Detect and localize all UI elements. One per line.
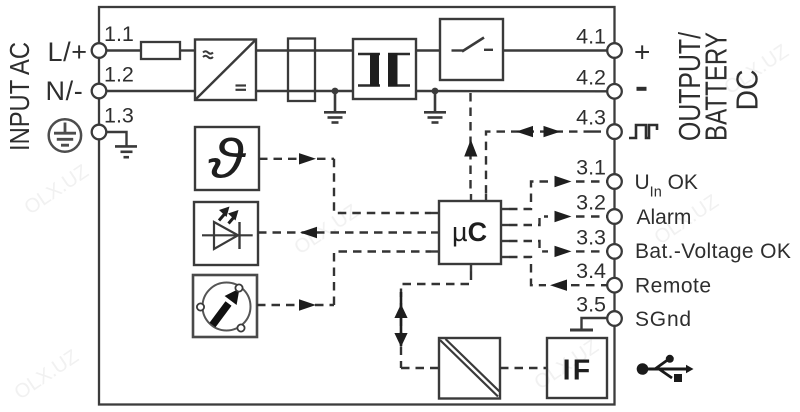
svg-text:+: + [634,37,650,68]
arrow up on comm link [394,292,407,346]
ground (terminal 1.3) [115,146,137,157]
USB connector icon [637,355,694,382]
dashed line uC to terminal 3.1 [509,182,548,210]
AC/DC converter U1 [195,40,256,101]
label L/+ [48,37,88,67]
svg-text:3.1: 3.1 [576,156,606,180]
svg-text:1.2: 1.2 [104,63,134,87]
label SGnd [635,308,692,331]
label - (output minus) [637,87,647,91]
svg-text:OLX.UZ: OLX.UZ [10,346,82,405]
label UIn OK [635,171,698,201]
pin label 1.1 [104,22,134,46]
pin label 3.4 [576,259,606,283]
wire AC/DC to transformer (upper, through filter) [256,49,353,51]
svg-text:UIn OK: UIn OK [635,171,698,201]
wire transformer to relay [416,49,440,51]
arrow right on 4.3 line [544,126,561,137]
svg-text:ϑ: ϑ [208,127,247,189]
label N/- [46,76,84,106]
svg-text:3.5: 3.5 [576,293,606,317]
arrow left on 4.3 line [516,126,533,137]
label + (output plus) [634,37,650,68]
pin label 1.3 [104,104,134,128]
terminal 3.4 [607,278,622,293]
svg-text:3.2: 3.2 [576,191,606,215]
svg-text:4.2: 4.2 [576,65,606,89]
wire AC/DC to transformer (lower, through filter) [256,90,353,92]
terminal 4.1 [607,43,622,58]
arrow left on LED line [300,227,317,238]
terminal 1.1 [92,43,107,58]
arrow down on comm link [394,333,407,347]
wire transformer to terminal 4.2 [416,90,607,93]
pin label 4.2 [576,65,606,89]
pin label 3.2 [576,191,606,215]
arrow right on 3.3 line [555,246,572,257]
wire L input (1.1 to fuse) [106,49,141,51]
pin label 1.2 [104,63,134,87]
svg-text:Remote: Remote [635,275,712,298]
terminal 4.2 [607,84,622,99]
relay K1 [440,19,503,80]
label DC [730,70,765,111]
svg-text:OLX.UZ: OLX.UZ [290,201,362,260]
dashed wire DC/DC to IF [500,367,547,369]
dashed bus down to uC pin (theta) [334,159,431,213]
arrow right on 3.1 line [555,176,572,187]
dashed stub into terminal 3.4 [571,284,607,286]
dashed line potentiometer to bus [257,304,334,306]
svg-text:L/+: L/+ [48,37,88,67]
pulse signal symbol at 4.3 [629,125,657,138]
svg-text:1.3: 1.3 [104,104,134,128]
protective earth symbol [49,119,81,151]
DC/DC isolation converter [439,338,500,399]
svg-text:SGnd: SGnd [635,308,692,331]
pin label 3.3 [576,225,606,249]
dashed stub into terminal 4.3 [592,130,607,132]
terminal 3.5 [607,311,622,326]
svg-text:Alarm: Alarm [637,206,692,229]
arrow left on 3.4 line [550,280,567,291]
dashed line uC to terminal 3.3 [509,241,548,251]
dashed line uC to LED [258,231,431,233]
svg-text:Bat.-Voltage OK: Bat.-Voltage OK [635,240,791,263]
svg-text:4.1: 4.1 [576,25,606,49]
dashed bus up to uC pin (pot) [334,252,431,306]
terminal 4.3 [607,124,622,139]
label Remote [635,275,712,298]
svg-text:3.4: 3.4 [576,259,606,283]
svg-text:1.1: 1.1 [104,22,134,46]
terminal 3.3 [607,244,622,259]
label OUTPUT/ [672,32,707,141]
signal ground SGnd symbol [570,318,607,330]
dashed line terminal 3.4 to uC [509,257,546,285]
enclosure frame [99,7,615,405]
wire 1.3 to earth [106,132,126,146]
svg-text:DC: DC [730,70,765,111]
interface module IF [547,338,607,398]
pin label 4.1 [576,25,606,49]
dashed wire bus to DC/DC [401,367,439,369]
filter Z1 [288,39,315,102]
svg-text:IF: IF [563,355,593,387]
dashed sense line from output minus to uC [469,93,471,194]
pin label 4.3 [576,106,606,130]
dashed stub into terminal 3.2 [576,215,607,217]
potentiometer (rotary selector) box [193,275,257,337]
LED indicator box [194,202,258,265]
svg-text:OLX.UZ: OLX.UZ [20,161,92,220]
dashed stub into terminal 3.1 [576,180,607,182]
arrow right on 3.2 line [555,211,572,222]
junction on lower wire at filter output [332,88,339,95]
terminal 3.1 [607,174,622,189]
junction on output minus wire [432,88,439,95]
wire N input (1.2 to AC/DC converter) [106,90,195,92]
pin label 3.5 [576,293,606,317]
transformer T1 [353,39,416,99]
pin label 3.1 [576,156,606,180]
svg-text:INPUT AC: INPUT AC [4,42,35,151]
microcontroller uC [431,194,509,272]
terminal 1.3 [92,125,107,140]
label Alarm [637,206,692,229]
arrow right on temperature line [299,153,316,164]
svg-text:3.3: 3.3 [576,225,606,249]
label INPUT AC [4,42,35,151]
arrow right on potentiometer line [299,299,316,310]
arrow up on sense line [464,140,477,157]
terminal 3.2 [607,209,622,224]
ground (chassis, after filter) [324,91,346,123]
dashed stub into terminal 3.3 [576,250,607,252]
dashed line uC to terminal 3.2 [509,217,548,226]
wire fuse to AC/DC converter [180,49,195,51]
wire relay to terminal 4.1 [503,49,607,51]
fuse F1 [141,42,180,59]
ground (chassis, output side) [424,91,446,123]
svg-text:µC: µC [452,217,487,247]
dashed line temperature sensor to bus [259,158,334,160]
svg-text:N/-: N/- [46,76,84,106]
terminal 1.2 [92,84,107,99]
dashed line terminal 4.3 to uC top [486,132,592,194]
temperature sensor box [195,127,259,190]
svg-text:4.3: 4.3 [576,106,606,130]
label BATTERY [699,32,734,141]
dashed link uC bottom to DC/DC-IF bus [401,272,471,369]
svg-text:BATTERY: BATTERY [699,32,734,141]
label Bat.-Voltage OK [635,240,791,263]
